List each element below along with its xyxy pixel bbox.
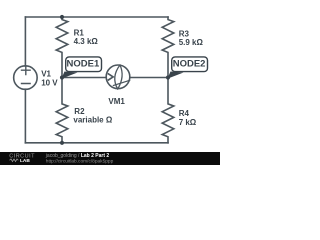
svg-text:4.3 kΩ: 4.3 kΩ	[74, 37, 99, 46]
wire top horizontal	[25, 16, 168, 18]
svg-text:NODE2: NODE2	[173, 59, 206, 70]
logo CIRCUIT LAB	[9, 154, 35, 165]
node flag NODE1	[61, 57, 101, 79]
node flag NODE2	[167, 57, 207, 79]
wire left vertical bottom (from V1)	[24, 89, 26, 143]
voltage source V1	[14, 66, 38, 90]
resistor R1	[56, 17, 68, 78]
svg-text:VM1: VM1	[108, 97, 125, 106]
svg-text:5.9 kΩ: 5.9 kΩ	[179, 38, 204, 47]
svg-text:http://circuitlab.com/c/8pak5p: http://circuitlab.com/c/8pak5ppp	[46, 159, 114, 165]
junction node A (NODE1)	[60, 75, 64, 79]
voltmeter VM1	[106, 65, 130, 89]
svg-text:7 kΩ: 7 kΩ	[179, 118, 197, 127]
svg-text:10 V: 10 V	[41, 78, 58, 87]
svg-text:NODE1: NODE1	[67, 59, 100, 70]
footer bar	[0, 152, 220, 165]
wire node1 to VM1	[62, 77, 106, 79]
resistor R3	[162, 17, 174, 78]
svg-text:variable Ω: variable Ω	[73, 116, 112, 125]
wire bottom horizontal	[25, 142, 168, 144]
svg-text:jacob_golding / Lab 2 Part 2: jacob_golding / Lab 2 Part 2	[45, 153, 110, 159]
wire left vertical top (to V1)	[24, 17, 26, 66]
wire VM1 to node2	[130, 77, 168, 79]
junction node B (NODE2)	[166, 75, 170, 79]
svg-text:LAB: LAB	[20, 158, 30, 164]
junction node bottom (R2/bottom wire)	[60, 141, 64, 145]
resistor R4	[162, 78, 174, 143]
resistor R2	[56, 78, 68, 143]
junction node top (R1/top wire)	[60, 15, 64, 19]
